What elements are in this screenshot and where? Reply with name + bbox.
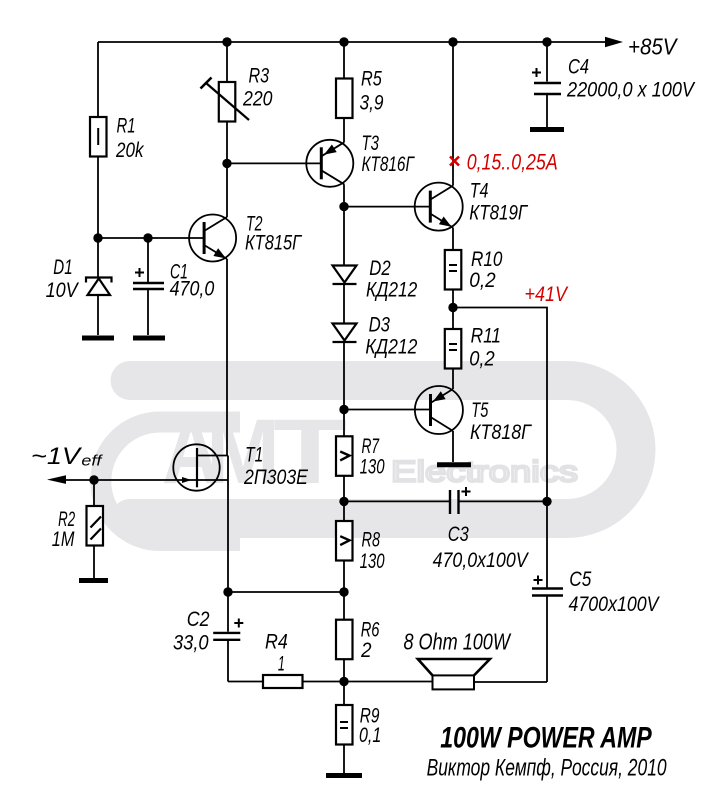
- wire T4 collector column: [452, 42, 454, 186]
- node top rail R3: [222, 37, 231, 46]
- node R3 bottom / T3 base: [222, 159, 231, 168]
- wire node to T3 base: [227, 162, 321, 164]
- svg-text:R4: R4: [265, 631, 288, 654]
- svg-text:R8: R8: [362, 529, 381, 552]
- svg-text:R1: R1: [117, 115, 136, 138]
- plus C1: [135, 268, 144, 277]
- wire R1 column top: [97, 42, 99, 117]
- transistor T4 KT819G: [415, 183, 463, 231]
- wire speaker to right rail: [474, 681, 547, 683]
- svg-text:220: 220: [242, 88, 273, 111]
- plus C4: [532, 68, 541, 77]
- svg-text:2П303Е: 2П303Е: [243, 466, 309, 489]
- wire node to C2 column: [228, 591, 344, 593]
- svg-text:1: 1: [278, 653, 285, 676]
- resistor R6: [336, 620, 353, 660]
- transistor T3 KT816G: [306, 140, 353, 187]
- T5 emitter arrow (PNP): [433, 391, 446, 401]
- wire right rail (C5 column): [546, 501, 548, 587]
- svg-text:8 Ohm 100W: 8 Ohm 100W: [404, 628, 512, 654]
- node T1 source column: [223, 587, 232, 596]
- capacitor C3: [450, 490, 459, 514]
- watermark AMT Electronics logo: [101, 381, 636, 541]
- diode D2 KD212: [333, 266, 357, 285]
- svg-text:33,0: 33,0: [173, 632, 209, 655]
- speaker 8 Ohm 100W: [418, 659, 490, 689]
- svg-text:10V: 10V: [46, 279, 80, 302]
- svg-text:3,9: 3,9: [360, 92, 384, 115]
- wire R1 bottom to node: [97, 157, 99, 278]
- plus C3: [462, 487, 471, 496]
- ground (C4): [530, 127, 564, 132]
- plus C2: [234, 619, 243, 628]
- node T3 collector / T4 base: [339, 202, 348, 211]
- ground (R9): [326, 773, 362, 778]
- svg-text:КТ815Г: КТ815Г: [245, 232, 302, 255]
- wire C2 to R4: [228, 681, 263, 683]
- resistor R11: [445, 329, 462, 369]
- ground (T5): [437, 462, 471, 467]
- T2 emitter arrow: [213, 248, 226, 258]
- svg-text:Т1: Т1: [245, 444, 263, 467]
- wire R5 column: [343, 42, 345, 266]
- wire R6 to node: [343, 659, 345, 705]
- svg-text:eff: eff: [81, 453, 103, 470]
- wire T1 drain column: [227, 456, 229, 593]
- arrow +85V: [605, 37, 623, 47]
- svg-text:Т4: Т4: [470, 180, 489, 203]
- wire R10 to node: [452, 290, 454, 330]
- svg-text:R11: R11: [471, 325, 501, 348]
- svg-text:C4: C4: [568, 56, 589, 79]
- svg-text:130: 130: [360, 550, 385, 573]
- resistor R9: [336, 705, 353, 745]
- svg-text:КТ818Г: КТ818Г: [470, 421, 532, 444]
- T4 emitter arrow: [439, 217, 452, 227]
- resistor R8: [336, 521, 353, 561]
- node C3 / +41V rail: [542, 497, 551, 506]
- wire T5 collector to ground: [452, 431, 454, 462]
- svg-text:0,1: 0,1: [359, 724, 381, 747]
- wire +41V rail: [453, 308, 547, 502]
- svg-text:1М: 1М: [52, 528, 75, 551]
- svg-text:22000,0 x 100V: 22000,0 x 100V: [566, 79, 696, 102]
- capacitor C5: [532, 589, 563, 683]
- svg-text:20k: 20k: [115, 139, 145, 162]
- ground (C1): [133, 336, 165, 341]
- svg-text:Т5: Т5: [471, 399, 488, 422]
- node C1 top: [143, 233, 152, 242]
- wire D3 to node: [343, 342, 345, 436]
- svg-text:C2: C2: [187, 608, 210, 631]
- wire node to T5 base: [344, 409, 431, 411]
- transistor T1 2P303E (JFET): [94, 444, 228, 490]
- svg-text:0,2: 0,2: [469, 269, 496, 292]
- zener diode D1: [86, 278, 112, 336]
- diode D3 KD212: [333, 324, 357, 343]
- svg-text:D2: D2: [369, 257, 391, 280]
- svg-text:4700x100V: 4700x100V: [569, 593, 661, 616]
- wire R9 to ground: [343, 745, 345, 774]
- node top rail T4: [448, 37, 457, 46]
- svg-text:~1V: ~1V: [31, 443, 82, 470]
- svg-text:C3: C3: [448, 523, 469, 546]
- node C3 left: [339, 497, 348, 506]
- ground (D1): [82, 336, 114, 341]
- svg-text:КТ819Г: КТ819Г: [469, 201, 528, 224]
- wire node to T2 base: [98, 237, 204, 239]
- resistor R3 (variable): [201, 78, 250, 122]
- wire R2 to ground: [93, 546, 95, 579]
- wire R7 to node: [343, 476, 345, 521]
- svg-text:Electronics: Electronics: [391, 456, 578, 489]
- svg-text:КТ816Г: КТ816Г: [362, 153, 415, 176]
- svg-text:2: 2: [360, 639, 372, 662]
- svg-text:R5: R5: [361, 68, 382, 91]
- T3 emitter arrow (PNP): [324, 145, 337, 155]
- resistor R4: [263, 675, 303, 688]
- wire node to C3: [344, 500, 449, 502]
- node R10/R11/+41V: [448, 303, 457, 312]
- ground (R2): [79, 578, 108, 583]
- wire R8 to node: [343, 561, 345, 620]
- capacitor C2: [213, 592, 240, 682]
- input arrow: [47, 475, 66, 484]
- svg-text:Т3: Т3: [362, 132, 380, 155]
- node R8/C2: [339, 587, 348, 596]
- transistor T2 KT815G: [189, 215, 236, 262]
- svg-text:C5: C5: [569, 568, 591, 591]
- svg-text:470,0: 470,0: [170, 278, 215, 301]
- wire T4 emitter to R10: [452, 228, 454, 250]
- svg-text:130: 130: [360, 456, 385, 479]
- transistor T5 KT818G: [415, 386, 463, 434]
- node top rail R5: [339, 37, 348, 46]
- svg-text:0,2: 0,2: [469, 348, 495, 371]
- svg-text:D1: D1: [53, 256, 72, 279]
- wire node to speaker: [344, 681, 433, 683]
- svg-text:Виктор Кемпф, Россия, 2010: Виктор Кемпф, Россия, 2010: [427, 755, 667, 782]
- svg-text:КД212: КД212: [365, 336, 417, 359]
- resistor R7: [336, 436, 353, 476]
- resistor R2: [87, 506, 104, 546]
- plus C5: [534, 576, 543, 585]
- svg-text:470,0x100V: 470,0x100V: [433, 549, 530, 572]
- wire top +85V rail: [98, 41, 608, 43]
- capacitor C4: [534, 42, 561, 127]
- svg-text:+85V: +85V: [628, 34, 679, 60]
- node T5 base: [339, 405, 348, 414]
- node output: [339, 677, 348, 686]
- red mark x: [450, 157, 459, 166]
- svg-text:+41V: +41V: [525, 283, 569, 306]
- svg-text:КД212: КД212: [366, 279, 418, 302]
- node top rail C4: [542, 37, 551, 46]
- wire D2 to D3: [343, 284, 345, 323]
- svg-text:100W POWER AMP: 100W POWER AMP: [440, 722, 652, 755]
- svg-text:D3: D3: [369, 314, 391, 337]
- wire R2 top: [93, 480, 95, 506]
- wire R4 to node: [303, 681, 345, 683]
- resistor R5: [336, 79, 353, 119]
- T1 gate arrow: [182, 477, 192, 483]
- wire input to node: [58, 479, 94, 481]
- wire T2 column (R3 branch): [226, 42, 228, 456]
- svg-text:R3: R3: [249, 65, 270, 88]
- resistor R10: [445, 250, 462, 290]
- capacitor C1: [133, 238, 164, 335]
- node input/R2: [89, 475, 98, 484]
- svg-text:R10: R10: [471, 248, 503, 271]
- wire C3 to +41V rail: [459, 500, 548, 502]
- wire node to T4 base: [344, 206, 430, 208]
- svg-text:0,15..0,25А: 0,15..0,25А: [467, 150, 558, 175]
- resistor R1: [90, 117, 107, 157]
- wire R11 to T5 emitter: [452, 369, 454, 390]
- node R1/D1/base wire: [93, 233, 102, 242]
